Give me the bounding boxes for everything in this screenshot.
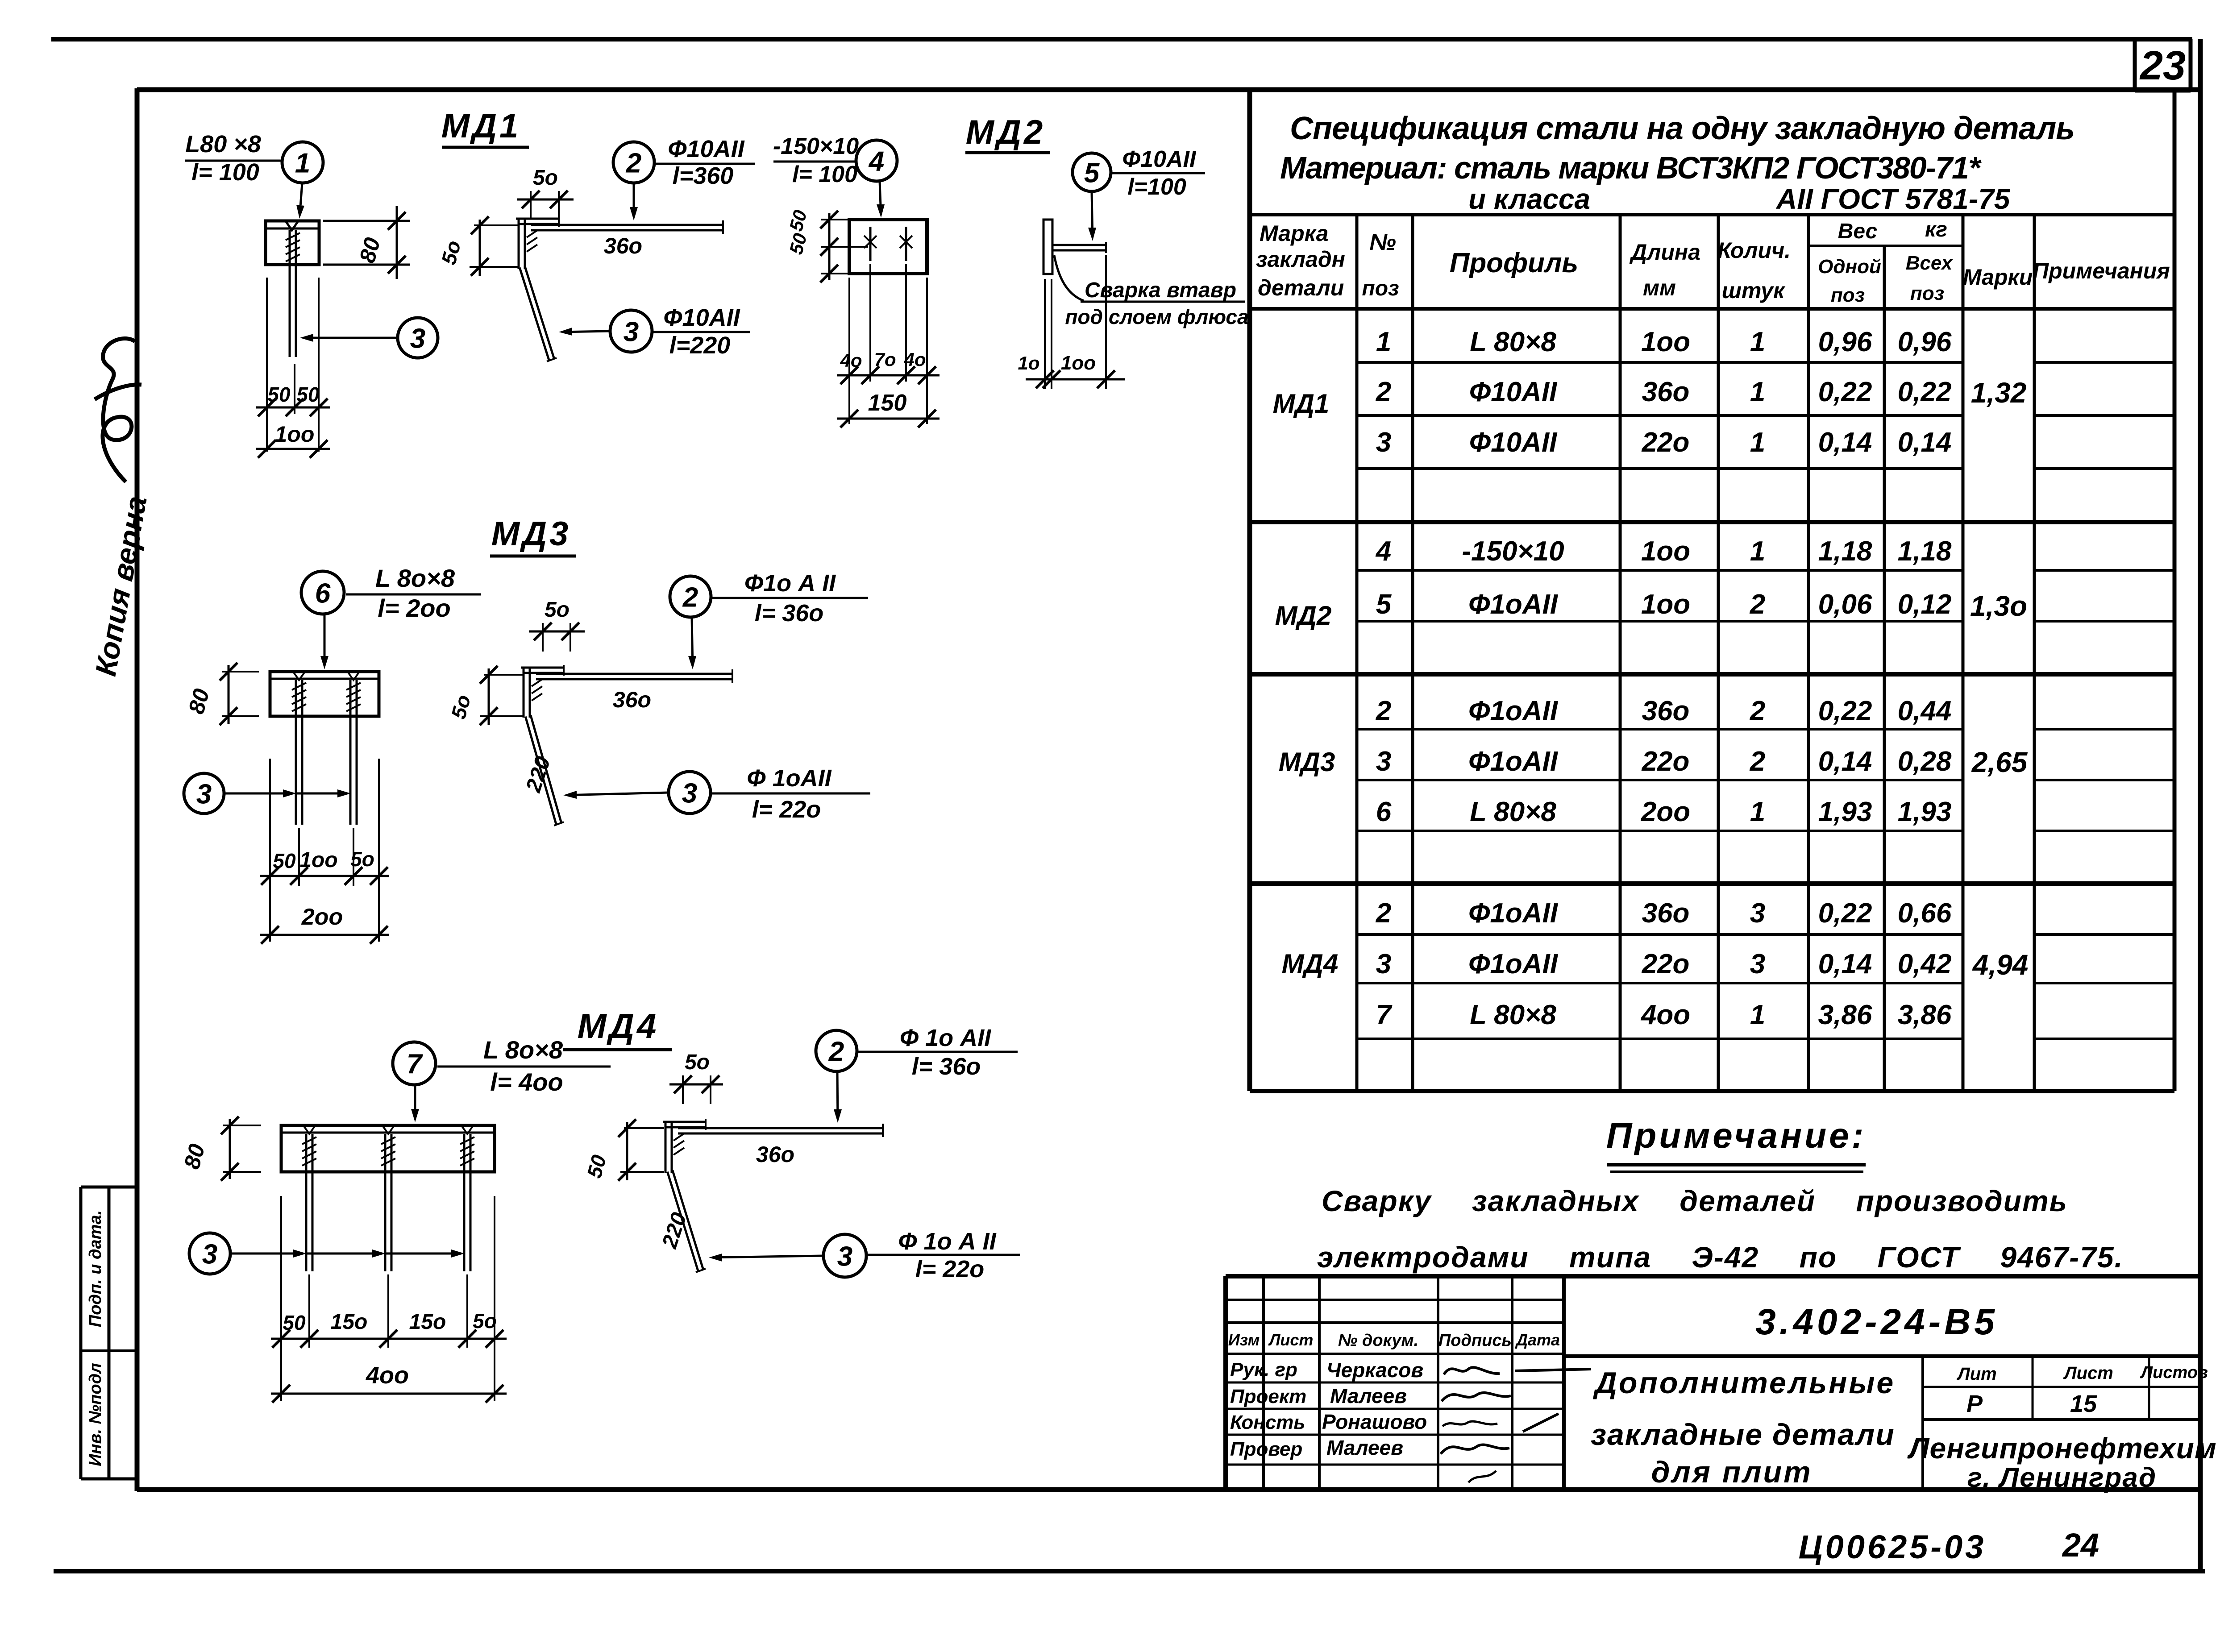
extension lines МД3 bottom bbox=[270, 759, 379, 942]
svg-text:Ф10АII: Ф10АII bbox=[663, 304, 740, 331]
svg-text:5o: 5o bbox=[685, 1050, 710, 1074]
svg-text:1,93: 1,93 bbox=[1818, 797, 1872, 827]
svg-text:1: 1 bbox=[1750, 377, 1765, 407]
svg-text:детали: детали bbox=[1258, 275, 1344, 300]
svg-text:1oo: 1oo bbox=[1641, 589, 1690, 620]
svg-text:Ф 1oАII: Ф 1oАII bbox=[747, 765, 831, 792]
svg-text:1: 1 bbox=[1750, 1000, 1765, 1030]
extension lines МД1 bottom dims bbox=[267, 278, 319, 452]
svg-text:Ф1oАII: Ф1oАII bbox=[1468, 949, 1559, 980]
svg-text:Лист: Лист bbox=[1268, 1331, 1314, 1349]
stamp row Рук.гр Черкасов bbox=[1230, 1358, 1591, 1382]
svg-text:1,32: 1,32 bbox=[1971, 377, 2027, 409]
left margin stamp: копия верна bbox=[89, 338, 153, 678]
table data row 1 bbox=[1376, 327, 1952, 357]
svg-text:2: 2 bbox=[1750, 696, 1765, 726]
svg-text:24: 24 bbox=[2062, 1527, 2099, 1564]
svg-text:3: 3 bbox=[682, 778, 697, 809]
stamp header row labels bbox=[1228, 1331, 1560, 1350]
svg-text:5: 5 bbox=[1376, 589, 1392, 620]
svg-text:поз: поз bbox=[1831, 284, 1865, 306]
svg-text:Ф1o А II: Ф1o А II bbox=[744, 570, 836, 597]
stamp outer border bbox=[1226, 1276, 2200, 1490]
extension lines МД2 side bbox=[1045, 255, 1106, 389]
view title МД4 bbox=[563, 1006, 672, 1050]
view title МД1 bbox=[441, 107, 529, 147]
table data row 10 bbox=[1376, 949, 1952, 980]
page number box bbox=[2135, 39, 2191, 91]
plate МД4 (pos 7) bbox=[281, 1125, 495, 1172]
svg-text:2,65: 2,65 bbox=[1971, 746, 2028, 778]
svg-text:l= 100: l= 100 bbox=[792, 162, 857, 187]
svg-text:МД4: МД4 bbox=[578, 1006, 659, 1046]
left margin cells bbox=[81, 1187, 137, 1479]
svg-text:Марка: Марка bbox=[1260, 221, 1328, 246]
stamp title Дополнительные закладные детали для плит bbox=[1591, 1366, 1895, 1489]
svg-text:1o: 1o bbox=[1018, 353, 1039, 374]
svg-text:Дата: Дата bbox=[1515, 1331, 1560, 1349]
dimension 50 (МД1 side left) bbox=[437, 216, 519, 276]
svg-text:2oo: 2oo bbox=[1641, 797, 1690, 827]
group label МД1 bbox=[1273, 389, 1330, 419]
plate МД2 side (edge) bbox=[1043, 220, 1052, 274]
svg-text:кг: кг bbox=[1925, 218, 1947, 241]
callout 1 bbox=[282, 142, 323, 183]
group weight 4,94 bbox=[1972, 949, 2029, 981]
svg-text:и класса: и класса bbox=[1468, 183, 1590, 215]
dimension 50 50 (МД2 left) bbox=[785, 208, 868, 282]
svg-text:0,22: 0,22 bbox=[1898, 377, 1952, 407]
svg-text:Р: Р bbox=[1966, 1391, 1983, 1417]
svg-text:2oo: 2oo bbox=[301, 904, 343, 930]
svg-text:l= 22o: l= 22o bbox=[752, 796, 821, 823]
rod pos3 diagonal (МД1 side) bbox=[520, 266, 557, 361]
svg-text:0,22: 0,22 bbox=[1818, 696, 1872, 726]
svg-text:Инв. №подл: Инв. №подл bbox=[86, 1363, 105, 1466]
label 360 (МД1 side) bbox=[604, 233, 642, 258]
rod pos2 l=360 (МД4 side) bbox=[678, 1124, 883, 1137]
note line 2 bbox=[1317, 1241, 2124, 1274]
angle leg МД4 side bbox=[663, 1119, 706, 1173]
svg-text:L80 ×8: L80 ×8 bbox=[185, 131, 261, 158]
svg-text:штук: штук bbox=[1722, 278, 1786, 303]
svg-text:0,06: 0,06 bbox=[1818, 589, 1872, 620]
label pos7 L80x8 l=400 bbox=[393, 1036, 611, 1122]
svg-text:1: 1 bbox=[1750, 427, 1765, 458]
label Инв. № подл bbox=[86, 1363, 105, 1466]
svg-text:1oo: 1oo bbox=[1641, 327, 1690, 357]
stamp org Ленгипронефтехим г. Ленинград bbox=[1907, 1432, 2217, 1493]
svg-text:МД3: МД3 bbox=[1279, 747, 1335, 777]
callout 3 (МД3 front) bbox=[184, 773, 351, 814]
callout 2 (МД1 side) bbox=[613, 136, 755, 220]
svg-text:0,14: 0,14 bbox=[1818, 427, 1872, 458]
svg-text:l= 36o: l= 36o bbox=[912, 1053, 981, 1080]
svg-text:36o: 36o bbox=[604, 233, 642, 258]
page number 23 bbox=[2139, 43, 2186, 88]
svg-text:3: 3 bbox=[1750, 898, 1765, 929]
plate МД1 (pos 1) bbox=[266, 221, 319, 265]
callout 3 (МД4 front) bbox=[189, 1233, 465, 1274]
svg-text:l=360: l=360 bbox=[673, 162, 734, 189]
dimension 50 (МД3 side left) bbox=[446, 666, 523, 725]
svg-text:Ленгипронефтехим: Ленгипронефтехим bbox=[1907, 1432, 2217, 1465]
svg-text:l= 4oo: l= 4oo bbox=[490, 1068, 563, 1096]
svg-text:Изм: Изм bbox=[1228, 1331, 1260, 1349]
svg-text:Листов: Листов bbox=[2140, 1363, 2208, 1382]
dimension 50 (МД4 side top) bbox=[669, 1050, 723, 1104]
dimension 80 (МД4) bbox=[179, 1117, 261, 1181]
dimension 100 bbox=[256, 422, 330, 458]
callout 3 (МД1 front) bbox=[300, 318, 438, 358]
svg-text:7: 7 bbox=[1376, 1000, 1393, 1030]
anchor symbol right (МД2) bbox=[900, 227, 912, 261]
dimension 150 bbox=[837, 390, 940, 428]
label 360 (МД4 side) bbox=[756, 1142, 794, 1167]
svg-text:Примечание:: Примечание: bbox=[1606, 1116, 1866, 1155]
svg-text:36o: 36o bbox=[756, 1142, 794, 1167]
callout 5 bbox=[1073, 146, 1205, 241]
note title Примечание bbox=[1606, 1116, 1866, 1172]
table data row 5 bbox=[1376, 589, 1952, 620]
svg-text:50: 50 bbox=[283, 1311, 306, 1334]
spec table title line 1 bbox=[1290, 111, 2074, 146]
svg-text:4: 4 bbox=[1375, 536, 1391, 567]
extension lines МД2 bottom bbox=[849, 264, 927, 424]
dimension 80 (МД1 height) bbox=[323, 206, 410, 279]
stamp doc number 3.402-24-В5 bbox=[1755, 1302, 1998, 1342]
label 220 diagonal (МД3) bbox=[521, 754, 555, 796]
svg-text:1oo: 1oo bbox=[1061, 352, 1096, 374]
svg-text:1,18: 1,18 bbox=[1898, 536, 1952, 567]
dimension 10|100 (МД2 side) bbox=[1018, 352, 1125, 388]
svg-text:6: 6 bbox=[315, 578, 331, 609]
svg-text:Лит: Лит bbox=[1956, 1364, 1996, 1384]
svg-text:Сварка втавр: Сварка втавр bbox=[1085, 278, 1236, 302]
svg-text:1,18: 1,18 bbox=[1818, 536, 1872, 567]
stamp grid right bbox=[1564, 1356, 2200, 1490]
svg-text:Малеев: Малеев bbox=[1330, 1384, 1407, 1407]
anchor symbol left (МД2) bbox=[864, 227, 877, 261]
table data row 4 bbox=[1375, 536, 1952, 567]
svg-text:0,96: 0,96 bbox=[1898, 327, 1952, 357]
spec table grid bbox=[1250, 90, 2174, 1091]
group weight 1,30 bbox=[1970, 590, 2027, 622]
svg-text:Подпись: Подпись bbox=[1438, 1331, 1512, 1350]
svg-text:L 80×8: L 80×8 bbox=[1470, 1000, 1556, 1030]
svg-text:0,66: 0,66 bbox=[1898, 898, 1952, 929]
svg-text:электродами типа Э-42 по ГОСТ: электродами типа Э-42 по ГОСТ 9467-75. bbox=[1317, 1241, 2124, 1274]
svg-text:3: 3 bbox=[1376, 746, 1391, 777]
anchor rods МД3 bbox=[292, 680, 361, 825]
svg-text:2: 2 bbox=[626, 148, 641, 178]
svg-text:l=100: l=100 bbox=[1127, 174, 1186, 200]
extension lines МД4 bottom bbox=[281, 1196, 495, 1401]
svg-text:Ц00625-03: Ц00625-03 bbox=[1799, 1528, 1987, 1565]
svg-text:l=220: l=220 bbox=[669, 332, 731, 359]
svg-text:МД4: МД4 bbox=[1282, 949, 1339, 979]
svg-text:г. Ленинград: г. Ленинград bbox=[1967, 1462, 2157, 1493]
dimension 50 (МД1 side top) bbox=[517, 166, 574, 219]
svg-text:Ф10АII: Ф10АII bbox=[1469, 427, 1558, 458]
rod pos5 (МД2 side) bbox=[1052, 242, 1106, 253]
svg-text:5: 5 bbox=[1084, 158, 1100, 188]
svg-text:МД2: МД2 bbox=[966, 113, 1045, 151]
svg-text:L 8o×8: L 8o×8 bbox=[483, 1036, 563, 1064]
svg-text:0,12: 0,12 bbox=[1898, 589, 1952, 620]
angle leg МД3 side bbox=[521, 665, 564, 718]
group label МД2 bbox=[1275, 601, 1332, 631]
dimension 50|150|150|50 (МД4) bbox=[271, 1309, 507, 1348]
svg-text:Ф10АII: Ф10АII bbox=[668, 136, 744, 162]
label pos6 L80x8 l=200 bbox=[301, 564, 481, 669]
svg-text:Ф1oАII: Ф1oАII bbox=[1468, 696, 1559, 726]
svg-text:4: 4 bbox=[868, 146, 884, 177]
svg-text:0,14: 0,14 bbox=[1818, 949, 1872, 980]
svg-text:МД2: МД2 bbox=[1275, 601, 1332, 631]
callout 3 (МД1 side) bbox=[559, 304, 750, 359]
svg-text:22o: 22o bbox=[1642, 949, 1690, 980]
svg-text:4oo: 4oo bbox=[366, 1362, 409, 1389]
svg-text:2: 2 bbox=[828, 1036, 844, 1067]
sheet top rule bbox=[51, 37, 2192, 42]
label pos1 L80x8 l=100 bbox=[185, 131, 283, 186]
svg-text:4,94: 4,94 bbox=[1972, 949, 2029, 981]
stamp values Р 15 bbox=[1966, 1391, 2097, 1417]
plate МД3 (pos 6) bbox=[270, 672, 379, 716]
label pos4 -150x10 l=100 bbox=[773, 133, 859, 187]
svg-text:L 80×8: L 80×8 bbox=[1470, 797, 1556, 827]
svg-text:3: 3 bbox=[1376, 949, 1391, 980]
svg-text:Провер: Провер bbox=[1230, 1438, 1302, 1460]
svg-text:2: 2 bbox=[682, 582, 698, 613]
svg-text:Материал: сталь марки ВСТ3КП2: Материал: сталь марки ВСТ3КП2 ГОСТ380-71… bbox=[1280, 150, 1982, 185]
spec table title line 3 bbox=[1468, 183, 2011, 215]
svg-text:Вес: Вес bbox=[1838, 220, 1878, 243]
svg-text:l= 100: l= 100 bbox=[191, 159, 259, 186]
svg-text:Консть: Консть bbox=[1230, 1411, 1305, 1433]
dimension 50 (МД3 side top) bbox=[529, 598, 585, 652]
svg-text:поз: поз bbox=[1362, 277, 1399, 300]
svg-text:Черкасов: Черкасов bbox=[1326, 1358, 1423, 1382]
label 220 diagonal (МД4) bbox=[657, 1210, 691, 1252]
note line 1 bbox=[1322, 1184, 2068, 1217]
svg-text:1: 1 bbox=[1750, 327, 1765, 357]
callout 2 (МД3 side) bbox=[670, 570, 868, 669]
table data row 11 bbox=[1376, 1000, 1952, 1030]
dimension 50|100|50 (МД3) bbox=[260, 847, 389, 885]
svg-text:закладн: закладн bbox=[1256, 247, 1345, 272]
rod pos3 diagonal (МД3 side) bbox=[525, 715, 564, 826]
svg-text:Спецификация стали на одну зак: Спецификация стали на одну закладную дет… bbox=[1290, 111, 2074, 146]
svg-text:Ф1oАII: Ф1oАII bbox=[1468, 589, 1559, 620]
leader to plate 1 bbox=[296, 183, 304, 219]
svg-text:АII ГОСТ 5781-75: АII ГОСТ 5781-75 bbox=[1775, 183, 2011, 215]
table data row 3 bbox=[1376, 427, 1952, 458]
svg-text:Проект: Проект bbox=[1230, 1386, 1306, 1407]
svg-text:22o: 22o bbox=[1642, 427, 1690, 458]
svg-text:3: 3 bbox=[837, 1241, 852, 1272]
svg-text:0,42: 0,42 bbox=[1898, 949, 1952, 980]
svg-text:1: 1 bbox=[1750, 536, 1765, 567]
svg-text:МД3: МД3 bbox=[491, 515, 571, 553]
svg-text:l= 2oo: l= 2oo bbox=[378, 594, 450, 622]
svg-text:5o: 5o bbox=[533, 166, 558, 190]
svg-text:Ф10АII: Ф10АII bbox=[1122, 146, 1197, 172]
spec table title line 2 bbox=[1280, 150, 1982, 185]
view title МД3 bbox=[490, 515, 576, 556]
svg-text:0,14: 0,14 bbox=[1898, 427, 1952, 458]
svg-text:2: 2 bbox=[1376, 377, 1391, 407]
anchor rod pos3 (front) bbox=[286, 230, 300, 357]
svg-text:Рук. гр: Рук. гр bbox=[1230, 1359, 1297, 1381]
svg-text:-150×10: -150×10 bbox=[1462, 536, 1564, 567]
svg-text:мм: мм bbox=[1643, 275, 1676, 300]
svg-text:№: № bbox=[1369, 229, 1396, 255]
dimension 80 (МД3) bbox=[183, 663, 259, 725]
stamp Лит Лист Листов header bbox=[1956, 1363, 2208, 1384]
svg-text:Всех: Всех bbox=[1906, 252, 1953, 274]
svg-text:3: 3 bbox=[196, 779, 212, 809]
svg-text:Колич.: Колич. bbox=[1717, 238, 1791, 263]
svg-text:3: 3 bbox=[202, 1239, 217, 1270]
svg-text:3: 3 bbox=[624, 316, 639, 347]
svg-text:Длина: Длина bbox=[1629, 240, 1700, 265]
stamp row Проект Малеев bbox=[1230, 1384, 1511, 1407]
svg-text:23: 23 bbox=[2139, 43, 2186, 88]
svg-text:1oo: 1oo bbox=[1641, 536, 1690, 567]
svg-text:Марки: Марки bbox=[1963, 265, 2033, 290]
svg-text:5o: 5o bbox=[473, 1309, 497, 1332]
label Подп. и дата bbox=[86, 1210, 105, 1327]
svg-text:l= 36o: l= 36o bbox=[755, 600, 824, 627]
dimension 200 (МД3) bbox=[260, 904, 389, 944]
svg-text:Ронашово: Ронашово bbox=[1322, 1410, 1427, 1433]
svg-text:1: 1 bbox=[1376, 327, 1391, 357]
svg-text:15o: 15o bbox=[409, 1310, 446, 1334]
svg-text:1oo: 1oo bbox=[275, 422, 315, 447]
svg-text:0,44: 0,44 bbox=[1898, 696, 1952, 726]
svg-text:2: 2 bbox=[1376, 898, 1391, 929]
svg-text:Дополнительные: Дополнительные bbox=[1593, 1366, 1895, 1400]
svg-text:L 80×8: L 80×8 bbox=[1470, 327, 1556, 357]
svg-text:3: 3 bbox=[1750, 949, 1765, 980]
table data row 9 bbox=[1376, 898, 1952, 929]
label 360 (МД3 side) bbox=[613, 687, 651, 712]
table data row 6 bbox=[1376, 696, 1952, 726]
dimension 40|70|40 bbox=[837, 349, 940, 384]
svg-text:2: 2 bbox=[1750, 746, 1765, 777]
callout 2 (МД4 side) bbox=[816, 1025, 1018, 1123]
svg-text:0,14: 0,14 bbox=[1818, 746, 1872, 777]
rod pos2 l=360 (МД1 side) bbox=[531, 220, 723, 234]
anchor rods МД4 bbox=[302, 1134, 474, 1271]
svg-text:2: 2 bbox=[1750, 589, 1765, 620]
svg-text:3,86: 3,86 bbox=[1818, 1000, 1872, 1030]
stamp row Консть Ронашово bbox=[1230, 1410, 1559, 1433]
svg-text:МД1: МД1 bbox=[1273, 389, 1330, 419]
svg-text:36o: 36o bbox=[1642, 898, 1690, 929]
svg-text:1: 1 bbox=[1750, 797, 1765, 827]
svg-text:150: 150 bbox=[868, 390, 907, 416]
callout 4 bbox=[856, 140, 897, 218]
group label МД3 bbox=[1279, 747, 1335, 777]
svg-text:под слоем флюса: под слоем флюса bbox=[1065, 305, 1248, 328]
svg-text:Ф1oАII: Ф1oАII bbox=[1468, 898, 1559, 929]
sheet bottom rule bbox=[54, 1569, 2205, 1573]
handwritten doc code Ц00625-03 24 bbox=[1799, 1527, 2099, 1565]
svg-text:3,86: 3,86 bbox=[1898, 1000, 1952, 1030]
svg-text:l= 22o: l= 22o bbox=[915, 1256, 985, 1283]
svg-text:1,93: 1,93 bbox=[1898, 797, 1952, 827]
rod pos3 diagonal (МД4 side) bbox=[667, 1170, 706, 1272]
svg-text:Подп. и дата.: Подп. и дата. bbox=[86, 1210, 105, 1327]
weld note Сварка втавр под слоем флюса bbox=[1054, 255, 1249, 328]
group weight 2,65 bbox=[1971, 746, 2028, 778]
svg-text:Профиль: Профиль bbox=[1450, 248, 1578, 278]
svg-text:Ф 1o АII: Ф 1o АII bbox=[900, 1025, 991, 1051]
svg-text:0,28: 0,28 bbox=[1898, 746, 1952, 777]
dimension 50|50 bbox=[256, 383, 330, 416]
svg-text:36o: 36o bbox=[1642, 377, 1690, 407]
callout 3 (МД3 side) bbox=[563, 765, 870, 823]
svg-text:4oo: 4oo bbox=[1640, 1000, 1690, 1030]
svg-text:закладные детали: закладные детали bbox=[1591, 1418, 1895, 1452]
stamp row Провер Малеев bbox=[1230, 1436, 1509, 1482]
rod pos2 l=360 (МД3 side) bbox=[536, 669, 732, 683]
callout 3 (МД4 side) bbox=[709, 1228, 1020, 1283]
svg-text:3: 3 bbox=[410, 323, 425, 354]
table data row 8 bbox=[1376, 797, 1952, 827]
svg-text:Ф1oАII: Ф1oАII bbox=[1468, 746, 1559, 777]
svg-text:3.402-24-В5: 3.402-24-В5 bbox=[1755, 1302, 1998, 1342]
plate МД2 (pos 4) bbox=[849, 220, 927, 274]
svg-text:Малеев: Малеев bbox=[1326, 1436, 1403, 1459]
svg-text:Лист: Лист bbox=[2063, 1363, 2113, 1383]
svg-text:6: 6 bbox=[1376, 797, 1392, 827]
svg-text:для плит: для плит bbox=[1651, 1455, 1812, 1489]
table data row 2 bbox=[1376, 377, 1952, 407]
svg-text:Ф10АII: Ф10АII bbox=[1469, 377, 1558, 407]
view title МД2 bbox=[965, 113, 1050, 153]
svg-text:МД1: МД1 bbox=[441, 107, 521, 145]
svg-text:Примечания: Примечания bbox=[2033, 258, 2170, 283]
svg-text:Одной: Одной bbox=[1818, 256, 1881, 278]
svg-text:0,22: 0,22 bbox=[1818, 898, 1872, 929]
svg-text:15: 15 bbox=[2070, 1391, 2097, 1417]
svg-text:L 8o×8: L 8o×8 bbox=[375, 564, 455, 592]
svg-text:36o: 36o bbox=[613, 687, 651, 712]
svg-text:1: 1 bbox=[295, 148, 310, 178]
group weight 1,32 bbox=[1971, 377, 2027, 409]
svg-text:Сварку закладных деталей прои: Сварку закладных деталей производить bbox=[1322, 1184, 2068, 1217]
svg-text:5o: 5o bbox=[545, 598, 570, 622]
table data row 7 bbox=[1376, 746, 1952, 777]
svg-text:36o: 36o bbox=[1642, 696, 1690, 726]
svg-text:3: 3 bbox=[1376, 427, 1391, 458]
svg-text:0,96: 0,96 bbox=[1818, 327, 1872, 357]
svg-text:-150×10: -150×10 bbox=[773, 133, 859, 159]
table header labels bbox=[1256, 218, 2170, 306]
angle leg МД1 side bbox=[516, 216, 559, 269]
svg-text:Ф 1o А II: Ф 1o А II bbox=[898, 1228, 996, 1255]
svg-text:поз: поз bbox=[1910, 282, 1944, 304]
dimension 50 (МД4 side left) bbox=[582, 1119, 664, 1181]
svg-text:2: 2 bbox=[1376, 696, 1391, 726]
svg-text:0,22: 0,22 bbox=[1818, 377, 1872, 407]
svg-text:22o: 22o bbox=[1642, 746, 1690, 777]
svg-text:15o: 15o bbox=[331, 1310, 368, 1334]
